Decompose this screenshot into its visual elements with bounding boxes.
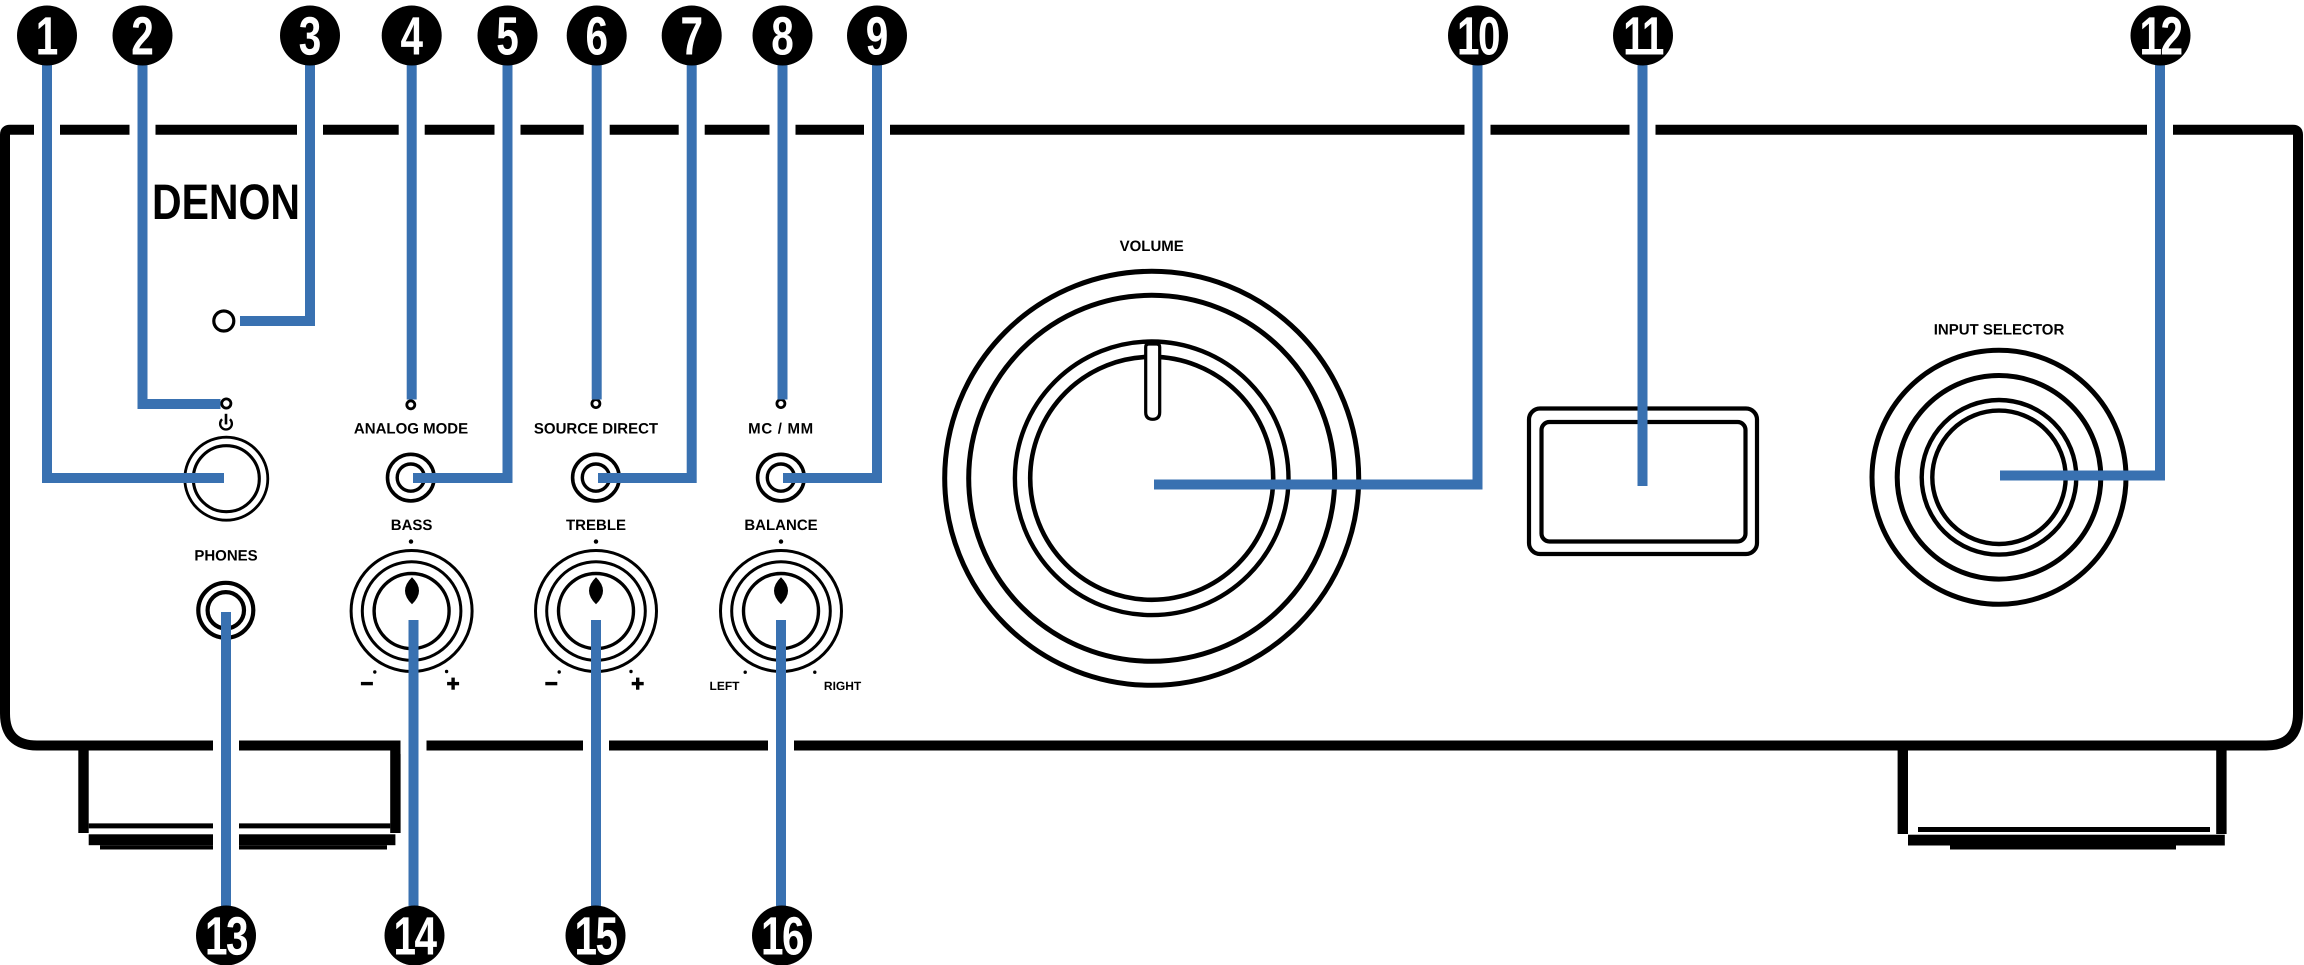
svg-text:9: 9 <box>866 6 889 66</box>
svg-text:SOURCE DIRECT: SOURCE DIRECT <box>534 421 658 438</box>
svg-text:10: 10 <box>1457 6 1499 66</box>
svg-text:15: 15 <box>574 906 617 965</box>
svg-text:BALANCE: BALANCE <box>744 517 817 534</box>
svg-text:13: 13 <box>205 906 248 965</box>
svg-text:RIGHT: RIGHT <box>824 679 862 693</box>
svg-text:7: 7 <box>680 6 703 66</box>
svg-text:MC / MM: MC / MM <box>748 421 814 438</box>
svg-text:11: 11 <box>1623 6 1664 66</box>
svg-text:VOLUME: VOLUME <box>1120 238 1184 255</box>
svg-text:1: 1 <box>36 6 59 66</box>
svg-text:14: 14 <box>393 906 437 965</box>
svg-text:PHONES: PHONES <box>194 547 257 564</box>
svg-text:INPUT SELECTOR: INPUT SELECTOR <box>1934 321 2065 338</box>
svg-text:2: 2 <box>131 6 154 66</box>
svg-text:8: 8 <box>771 6 794 66</box>
svg-text:16: 16 <box>761 906 804 965</box>
svg-text:6: 6 <box>585 6 608 66</box>
svg-text:3: 3 <box>299 6 322 66</box>
svg-text:DENON: DENON <box>152 174 300 230</box>
svg-text:ANALOG MODE: ANALOG MODE <box>354 421 468 438</box>
svg-text:4: 4 <box>400 6 423 66</box>
svg-text:BASS: BASS <box>391 517 433 534</box>
svg-text:5: 5 <box>496 6 519 66</box>
svg-text:LEFT: LEFT <box>710 679 741 693</box>
svg-text:12: 12 <box>2139 6 2181 66</box>
svg-text:TREBLE: TREBLE <box>566 517 626 534</box>
